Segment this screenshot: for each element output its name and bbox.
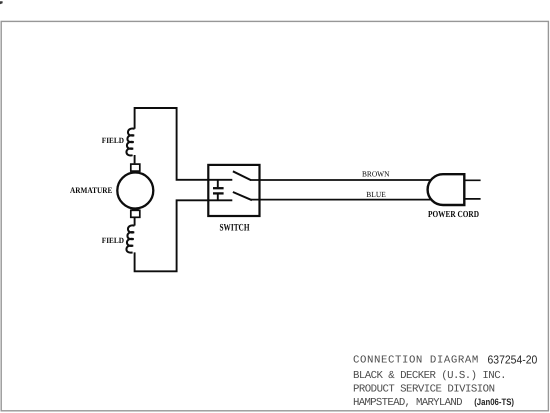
wire: switch inner bottom (209, 199, 232, 201)
wire: switch top output to plug (BROWN) (250, 179, 433, 181)
capacitor plate 2 (213, 192, 224, 194)
switch blade bottom (233, 192, 252, 200)
brush (top square) (131, 164, 140, 171)
svg-text:BROWN: BROWN (362, 170, 390, 179)
svg-text:SWITCH: SWITCH (220, 223, 250, 234)
plug prong bottom (464, 198, 480, 200)
inductor FIELD bottom coil (126, 225, 134, 252)
wire: switch inner top (209, 179, 232, 181)
corner scan speck (0, 1, 3, 4)
wire bottom brush to coil (134, 218, 136, 226)
brush (bottom square) (131, 210, 140, 217)
armature circle (117, 173, 153, 209)
svg-text:POWER CORD: POWER CORD (428, 209, 479, 219)
wire coil to bottom horizontal, bottom horizontal, right vertical up to bottom stub, stub to switch (135, 200, 209, 271)
inductor FIELD top coil (126, 129, 134, 156)
svg-text:BLUE: BLUE (366, 190, 386, 199)
switch box (208, 165, 259, 216)
capacitor lead top (217, 180, 219, 188)
wire coil to top brush (134, 155, 136, 163)
svg-text:FIELD: FIELD (102, 136, 124, 145)
svg-text:(Jan06-TS): (Jan06-TS) (474, 397, 514, 407)
svg-text:BLACK & DECKER (U.S.) INC.: BLACK & DECKER (U.S.) INC. (353, 370, 507, 382)
svg-text:ARMATURE: ARMATURE (70, 185, 113, 195)
svg-text:CONNECTION DIAGRAM: CONNECTION DIAGRAM (353, 355, 478, 367)
plug prong top (464, 179, 480, 181)
svg-text:FIELD: FIELD (102, 236, 124, 245)
power cord plug body (428, 174, 465, 205)
capacitor lead bottom (217, 194, 219, 200)
capacitor plate 1 (213, 187, 224, 189)
wire: top loop (left vertical top, top horizontal, right vertical down to top stub, stub to switch) (135, 108, 209, 180)
svg-text:PRODUCT SERVICE DIVISION: PRODUCT SERVICE DIVISION (353, 383, 495, 395)
switch blade top (233, 171, 251, 180)
svg-text:637254-20: 637254-20 (488, 353, 538, 366)
svg-text:HAMPSTEAD, MARYLAND: HAMPSTEAD, MARYLAND (353, 397, 463, 409)
wire: switch bottom output to plug (BLUE) (251, 199, 432, 201)
